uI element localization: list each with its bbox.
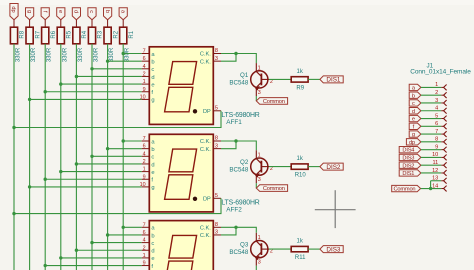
svg-text:DP: DP bbox=[203, 197, 211, 203]
svg-text:b: b bbox=[104, 10, 110, 13]
pin 13 of J1 bbox=[441, 180, 443, 182]
svg-text:C.K.: C.K. bbox=[200, 52, 211, 58]
resistor R11 1k bbox=[291, 246, 308, 251]
svg-text:330R: 330R bbox=[78, 47, 84, 62]
junction net a / AFF2 bbox=[122, 139, 125, 142]
svg-text:e: e bbox=[57, 10, 63, 13]
pin 3 (C.K.) of AFF3 bbox=[213, 234, 221, 236]
resistor R6 330R bbox=[42, 27, 49, 44]
display AFF3 LTS-6980HR body bbox=[149, 221, 213, 270]
svg-text:Q2: Q2 bbox=[240, 159, 249, 166]
pin 9 (f) of AFF1 bbox=[142, 91, 150, 93]
svg-text:d: d bbox=[412, 109, 415, 115]
wire label-c to R3 bbox=[91, 20, 93, 28]
svg-text:4: 4 bbox=[143, 238, 146, 244]
resistor R9 1k bbox=[291, 77, 308, 82]
wire to J1 pin 11 bbox=[421, 164, 441, 166]
svg-text:10: 10 bbox=[140, 182, 146, 188]
svg-text:DIS2: DIS2 bbox=[326, 164, 340, 171]
wire to J1 pin 13 bbox=[431, 180, 442, 182]
svg-text:C.K.: C.K. bbox=[200, 139, 211, 145]
wire AFF2 pin 3 to junction bbox=[221, 141, 236, 149]
svg-text:e: e bbox=[412, 117, 415, 123]
pin 10 (g) of AFF2 bbox=[142, 186, 150, 188]
global label d (top) bbox=[72, 8, 80, 20]
pin 8 (C.K.) of AFF2 bbox=[213, 140, 221, 142]
junction net d / AFF3 bbox=[75, 249, 78, 252]
global label DIS2 bbox=[320, 163, 343, 170]
pin 1 of J1 bbox=[441, 86, 443, 88]
svg-text:g: g bbox=[26, 10, 32, 13]
svg-text:10: 10 bbox=[140, 94, 146, 100]
wire net g to AFF1 pin 10 bbox=[30, 98, 142, 100]
wire net f to AFF2 pin 9 bbox=[45, 178, 142, 180]
svg-text:11: 11 bbox=[432, 160, 438, 166]
svg-text:330R: 330R bbox=[62, 47, 68, 62]
wire net d vertical bbox=[75, 44, 77, 270]
pin 2 of J1 bbox=[441, 94, 443, 96]
junction net e / AFF2 bbox=[59, 170, 62, 173]
wire net c to AFF1 pin 4 bbox=[92, 68, 142, 70]
svg-text:1k: 1k bbox=[297, 239, 304, 245]
wire to J1 pin 12 bbox=[421, 172, 441, 174]
wire label-a to R1 bbox=[122, 20, 124, 28]
svg-text:LTS-6980HR: LTS-6980HR bbox=[221, 199, 259, 206]
wire Q1 emitter to Common bbox=[255, 96, 257, 101]
wire net c to AFF3 pin 4 bbox=[92, 242, 142, 244]
pin 6 of J1 bbox=[441, 125, 443, 127]
resistor R5 330R bbox=[57, 27, 64, 44]
svg-text:R8: R8 bbox=[20, 30, 26, 38]
wire J1 pin 13 to pin 14 (Common) bbox=[430, 181, 432, 189]
svg-text:DIS1: DIS1 bbox=[326, 77, 340, 84]
junction C.K. net bbox=[234, 226, 237, 229]
global label g (J1 pin 7) bbox=[409, 131, 421, 137]
svg-text:8: 8 bbox=[215, 136, 218, 142]
svg-text:c: c bbox=[88, 10, 94, 13]
svg-text:1: 1 bbox=[143, 253, 146, 259]
svg-text:3: 3 bbox=[258, 177, 261, 183]
global label d (J1 pin 4) bbox=[409, 108, 421, 114]
AFF2 seven-segment digit upper loop bbox=[169, 149, 197, 172]
wire net d to AFF1 pin 2 bbox=[76, 75, 141, 77]
global label a (J1 pin 1) bbox=[409, 84, 421, 90]
svg-text:7: 7 bbox=[143, 49, 146, 55]
svg-text:R1: R1 bbox=[129, 30, 135, 38]
svg-text:2: 2 bbox=[143, 245, 146, 251]
pin 4 of J1 bbox=[441, 110, 443, 112]
pin 10 of J1 bbox=[441, 156, 443, 158]
pin 11 of J1 bbox=[441, 164, 443, 166]
svg-text:C.K.: C.K. bbox=[200, 59, 211, 65]
global label e (J1 pin 5) bbox=[409, 115, 421, 121]
svg-text:R7: R7 bbox=[35, 30, 41, 38]
svg-text:e: e bbox=[151, 82, 154, 88]
junction C.K. net bbox=[234, 139, 237, 142]
pin 7 (a) of AFF2 bbox=[142, 140, 150, 142]
AFF1 decimal point dot bbox=[193, 109, 197, 113]
svg-text:d: d bbox=[151, 75, 154, 81]
svg-text:3: 3 bbox=[435, 98, 438, 104]
display AFF1 LTS-6980HR body bbox=[149, 47, 213, 125]
svg-text:Common: Common bbox=[263, 186, 285, 192]
global label Common (J1 pin 14) bbox=[392, 185, 421, 191]
global label e (top) bbox=[57, 8, 65, 20]
svg-text:1k: 1k bbox=[297, 156, 304, 162]
svg-text:R5: R5 bbox=[67, 30, 73, 38]
resistor R10 1k bbox=[291, 164, 308, 169]
svg-text:330R: 330R bbox=[47, 47, 53, 62]
svg-text:AFF2: AFF2 bbox=[226, 207, 242, 214]
svg-text:330R: 330R bbox=[31, 47, 37, 62]
svg-text:1: 1 bbox=[435, 82, 438, 88]
wire to J1 pin 9 bbox=[421, 149, 441, 151]
resistor R8 330R bbox=[10, 27, 17, 44]
wire net d to AFF3 pin 2 bbox=[76, 249, 141, 251]
svg-text:BC548: BC548 bbox=[229, 249, 248, 256]
junction net c / AFF2 bbox=[90, 155, 93, 158]
AFF1 seven-segment digit lower loop bbox=[165, 87, 193, 112]
wire net f to AFF1 pin 9 bbox=[45, 91, 142, 93]
svg-text:DIS2: DIS2 bbox=[402, 163, 414, 169]
svg-text:1: 1 bbox=[258, 235, 261, 241]
global label f (J1 pin 6) bbox=[409, 123, 421, 129]
pin 3 (C.K.) of AFF1 bbox=[213, 60, 221, 62]
svg-text:6: 6 bbox=[143, 144, 146, 150]
junction net c / AFF1 bbox=[90, 67, 93, 70]
svg-text:2: 2 bbox=[143, 159, 146, 165]
wire label-dp to R8 bbox=[13, 20, 15, 28]
wire label-d to R4 bbox=[75, 20, 77, 28]
svg-text:C.K.: C.K. bbox=[200, 147, 211, 153]
wire AFF2 pin 8 to Q2 collector bbox=[221, 141, 256, 150]
svg-text:e: e bbox=[151, 256, 154, 262]
svg-text:6: 6 bbox=[143, 230, 146, 236]
global label a (top) bbox=[119, 8, 127, 20]
svg-text:8: 8 bbox=[215, 48, 218, 54]
svg-text:C.K.: C.K. bbox=[200, 226, 211, 232]
wire R9 to DIS1 bbox=[308, 78, 320, 80]
svg-text:DIS3: DIS3 bbox=[402, 156, 414, 162]
svg-text:DIS4: DIS4 bbox=[402, 148, 414, 154]
pin 6 (b) of AFF3 bbox=[142, 234, 150, 236]
pin 10 (g) of AFF1 bbox=[142, 98, 150, 100]
wire AFF1 pin 3 to junction bbox=[221, 54, 236, 62]
wire net dp vertical bbox=[13, 44, 15, 270]
AFF3 seven-segment digit lower loop bbox=[165, 261, 193, 270]
svg-text:d: d bbox=[151, 162, 154, 168]
wire to J1 pin 2 bbox=[421, 94, 441, 96]
resistor R7 330R bbox=[26, 27, 33, 44]
svg-text:1: 1 bbox=[143, 167, 146, 173]
global label DIS1 bbox=[320, 76, 343, 83]
wire net e to AFF2 pin 1 bbox=[61, 171, 142, 173]
svg-text:7: 7 bbox=[143, 136, 146, 142]
wire to J1 pin 8 bbox=[421, 141, 441, 143]
svg-text:5: 5 bbox=[215, 106, 218, 112]
svg-text:14: 14 bbox=[432, 183, 438, 189]
svg-text:AFF1: AFF1 bbox=[226, 119, 242, 126]
pin 7 (a) of AFF3 bbox=[142, 226, 150, 228]
junction net b / AFF3 bbox=[106, 233, 109, 236]
svg-text:DIS3: DIS3 bbox=[326, 246, 340, 253]
wire Q3 base to R11 bbox=[269, 248, 291, 250]
svg-text:4: 4 bbox=[143, 151, 146, 157]
svg-text:e: e bbox=[151, 170, 154, 176]
global label g (top) bbox=[26, 8, 34, 20]
junction net a / AFF3 bbox=[122, 226, 125, 229]
svg-text:R6: R6 bbox=[51, 30, 57, 38]
wire AFF3 pin 3 to junction bbox=[221, 227, 236, 235]
pin 9 (f) of AFF2 bbox=[142, 178, 150, 180]
svg-text:330R: 330R bbox=[16, 47, 22, 62]
svg-text:9: 9 bbox=[143, 174, 146, 180]
svg-text:dp: dp bbox=[10, 6, 16, 12]
svg-text:DP: DP bbox=[203, 109, 211, 115]
svg-text:6: 6 bbox=[435, 121, 438, 127]
svg-text:1: 1 bbox=[258, 66, 261, 72]
wire to J1 pin 3 bbox=[421, 102, 441, 104]
wire net dp from AFF2 pin 5 bbox=[14, 198, 221, 213]
svg-text:2: 2 bbox=[143, 71, 146, 77]
svg-text:Common: Common bbox=[394, 187, 416, 193]
svg-text:g: g bbox=[151, 185, 154, 191]
resistor R2 330R bbox=[104, 27, 111, 44]
svg-text:Q1: Q1 bbox=[240, 72, 249, 79]
svg-text:4: 4 bbox=[435, 106, 438, 112]
global label Common (Q1) bbox=[256, 98, 287, 105]
svg-text:4: 4 bbox=[143, 64, 146, 70]
pin 7 (a) of AFF1 bbox=[142, 53, 150, 55]
junction net c / AFF3 bbox=[90, 241, 93, 244]
svg-text:d: d bbox=[73, 10, 79, 13]
svg-text:330R: 330R bbox=[125, 47, 131, 62]
junction net dp / AFF1 bbox=[12, 126, 15, 129]
svg-text:DIS1: DIS1 bbox=[402, 171, 414, 177]
transistor Q3 BC548 bbox=[229, 233, 273, 266]
global label DIS3 bbox=[320, 246, 343, 253]
svg-text:g: g bbox=[151, 98, 154, 104]
wire to J1 pin 10 bbox=[421, 156, 441, 158]
wire net a to AFF3 pin 7 bbox=[123, 226, 142, 228]
svg-text:c: c bbox=[151, 155, 154, 161]
junction net b / AFF1 bbox=[106, 59, 109, 62]
wire to J1 pin 6 bbox=[421, 125, 441, 127]
wire label-g to R7 bbox=[29, 20, 31, 28]
pin 4 (c) of AFF3 bbox=[142, 242, 150, 244]
svg-text:LTS-6980HR: LTS-6980HR bbox=[221, 112, 259, 119]
wire to J1 pin 4 bbox=[421, 110, 441, 112]
wire net b vertical bbox=[107, 44, 109, 270]
svg-text:dp: dp bbox=[409, 140, 415, 146]
svg-text:R11: R11 bbox=[295, 255, 306, 261]
pin 14 of J1 bbox=[441, 188, 443, 190]
pin 8 of J1 bbox=[441, 141, 443, 143]
pin 9 of J1 bbox=[441, 149, 443, 151]
junction net b / AFF2 bbox=[106, 147, 109, 150]
global label DIS2 (J1 pin 11) bbox=[399, 162, 421, 168]
svg-text:8: 8 bbox=[435, 137, 438, 143]
pin 2 (d) of AFF2 bbox=[142, 163, 150, 165]
resistor R1 330R bbox=[120, 27, 127, 44]
wire net e to AFF1 pin 1 bbox=[61, 83, 142, 85]
global label DIS1 (J1 pin 12) bbox=[399, 170, 421, 176]
svg-text:b: b bbox=[151, 233, 154, 239]
pin 3 (C.K.) of AFF2 bbox=[213, 148, 221, 150]
global label dp (top) bbox=[10, 4, 18, 20]
junction Common / J1 pin 14 bbox=[429, 187, 432, 190]
svg-text:12: 12 bbox=[432, 168, 438, 174]
wire net dp from AFF1 pin 5 bbox=[14, 111, 221, 128]
svg-text:d: d bbox=[151, 249, 154, 255]
svg-text:R10: R10 bbox=[295, 173, 307, 179]
svg-text:3: 3 bbox=[258, 260, 261, 266]
wire net f vertical bbox=[44, 44, 46, 270]
global label dp (J1 pin 8) bbox=[406, 139, 421, 145]
pin 5 (DP) of AFF2 bbox=[213, 197, 221, 199]
global label DIS4 (J1 pin 9) bbox=[399, 146, 421, 152]
wire net e vertical bbox=[60, 44, 62, 270]
AFF1 seven-segment digit upper loop bbox=[169, 62, 197, 85]
global label b (J1 pin 2) bbox=[409, 92, 421, 98]
svg-text:7: 7 bbox=[435, 129, 438, 135]
wire AFF1 pin 8 to Q1 collector bbox=[221, 54, 256, 64]
svg-text:7: 7 bbox=[143, 222, 146, 228]
svg-text:5: 5 bbox=[435, 113, 438, 119]
resistor R4 330R bbox=[73, 27, 80, 44]
wire net a to AFF2 pin 7 bbox=[123, 140, 142, 142]
junction net g / AFF2 bbox=[28, 185, 31, 188]
wire label-b to R2 bbox=[107, 20, 109, 28]
svg-text:b: b bbox=[412, 93, 415, 99]
wire net b to AFF1 pin 6 bbox=[108, 60, 142, 62]
svg-text:b: b bbox=[151, 147, 154, 153]
svg-text:R9: R9 bbox=[296, 85, 304, 91]
wire net g vertical bbox=[29, 44, 31, 270]
pin 5 of J1 bbox=[441, 118, 443, 120]
global label f (top) bbox=[41, 8, 49, 20]
junction net e / AFF1 bbox=[59, 82, 62, 85]
wire Q2 base to R10 bbox=[269, 166, 291, 168]
svg-text:Conn_01x14_Female: Conn_01x14_Female bbox=[410, 69, 471, 76]
pin 6 (b) of AFF2 bbox=[142, 148, 150, 150]
wire to J1 pin 5 bbox=[421, 118, 441, 120]
wire R10 to DIS2 bbox=[308, 166, 320, 168]
wire AFF3 pin 8 to Q3 collector bbox=[221, 227, 256, 233]
wire net b to AFF3 pin 6 bbox=[108, 234, 142, 236]
svg-text:330R: 330R bbox=[94, 47, 100, 62]
svg-text:1: 1 bbox=[143, 79, 146, 85]
wire to J1 pin 14 bbox=[421, 188, 442, 190]
svg-text:R2: R2 bbox=[113, 30, 119, 38]
svg-text:330R: 330R bbox=[109, 47, 115, 62]
pin 2 (d) of AFF1 bbox=[142, 75, 150, 77]
wire net g to AFF2 pin 10 bbox=[30, 186, 142, 188]
pin 4 (c) of AFF2 bbox=[142, 155, 150, 157]
svg-text:C.K.: C.K. bbox=[200, 233, 211, 239]
wire to J1 pin 1 bbox=[421, 86, 441, 88]
display AFF2 LTS-6980HR body bbox=[149, 134, 213, 212]
svg-text:b: b bbox=[151, 59, 154, 65]
svg-text:1: 1 bbox=[258, 153, 261, 159]
wire net d to AFF2 pin 2 bbox=[76, 163, 141, 165]
svg-text:R4: R4 bbox=[82, 30, 88, 38]
junction net g / AFF1 bbox=[28, 98, 31, 101]
AFF2 decimal point dot bbox=[193, 197, 197, 201]
pin 8 (C.K.) of AFF3 bbox=[213, 226, 221, 228]
pin 2 (d) of AFF3 bbox=[142, 249, 150, 251]
pin 7 of J1 bbox=[441, 133, 443, 135]
svg-text:BC548: BC548 bbox=[229, 167, 248, 174]
junction net d / AFF2 bbox=[75, 162, 78, 165]
junction net a / AFF1 bbox=[122, 52, 125, 55]
svg-text:c: c bbox=[412, 101, 415, 107]
wire Q2 emitter to Common bbox=[255, 183, 257, 188]
svg-text:9: 9 bbox=[435, 144, 438, 150]
svg-text:13: 13 bbox=[432, 176, 438, 182]
crosshair marker bbox=[315, 209, 356, 211]
wire label-f to R6 bbox=[44, 20, 46, 28]
junction net f / AFF3 bbox=[44, 264, 47, 267]
wire net c to AFF2 pin 4 bbox=[92, 155, 142, 157]
transistor Q2 BC548 bbox=[229, 150, 273, 183]
svg-text:BC548: BC548 bbox=[229, 79, 248, 86]
svg-text:3: 3 bbox=[215, 230, 218, 236]
svg-text:R3: R3 bbox=[98, 30, 104, 38]
pin 1 (e) of AFF3 bbox=[142, 257, 150, 259]
transistor Q1 BC548 bbox=[229, 63, 273, 96]
global label c (top) bbox=[88, 8, 96, 20]
wire net a vertical bbox=[122, 44, 124, 270]
global label DIS3 (J1 pin 10) bbox=[399, 154, 421, 160]
svg-text:2: 2 bbox=[435, 90, 438, 96]
wire net a to AFF1 pin 7 bbox=[123, 53, 142, 55]
svg-text:g: g bbox=[412, 132, 415, 138]
svg-text:9: 9 bbox=[143, 261, 146, 267]
pin 12 of J1 bbox=[441, 172, 443, 174]
wire R11 to DIS3 bbox=[308, 248, 320, 250]
junction C.K. net bbox=[234, 52, 237, 55]
svg-text:9: 9 bbox=[143, 87, 146, 93]
svg-text:Q3: Q3 bbox=[240, 242, 249, 249]
wire net e to AFF3 pin 1 bbox=[61, 257, 142, 259]
global label c (J1 pin 3) bbox=[409, 100, 421, 106]
wire net f to AFF3 pin 9 bbox=[45, 265, 142, 267]
svg-text:5: 5 bbox=[215, 193, 218, 199]
svg-text:c: c bbox=[151, 67, 154, 73]
wire to J1 pin 7 bbox=[421, 133, 441, 135]
global label b (top) bbox=[104, 8, 112, 20]
wire Q1 base to R9 bbox=[269, 78, 291, 80]
svg-text:c: c bbox=[151, 241, 154, 247]
global label Common (Q2) bbox=[256, 185, 287, 192]
pin 5 (DP) of AFF1 bbox=[213, 110, 221, 112]
svg-text:3: 3 bbox=[215, 56, 218, 62]
pin 1 (e) of AFF2 bbox=[142, 171, 150, 173]
svg-text:8: 8 bbox=[215, 222, 218, 228]
svg-text:3: 3 bbox=[258, 90, 261, 96]
pin 6 (b) of AFF1 bbox=[142, 60, 150, 62]
wire net c vertical bbox=[91, 44, 93, 270]
wire label-e to R5 bbox=[60, 20, 62, 28]
junction net dp / AFF2 bbox=[12, 212, 15, 215]
junction net d / AFF1 bbox=[75, 75, 78, 78]
pin 3 of J1 bbox=[441, 102, 443, 104]
wire Q3 emitter to Common bbox=[255, 266, 257, 270]
pin 4 (c) of AFF1 bbox=[142, 68, 150, 70]
AFF2 seven-segment digit lower loop bbox=[165, 175, 193, 200]
svg-text:1k: 1k bbox=[297, 69, 304, 75]
